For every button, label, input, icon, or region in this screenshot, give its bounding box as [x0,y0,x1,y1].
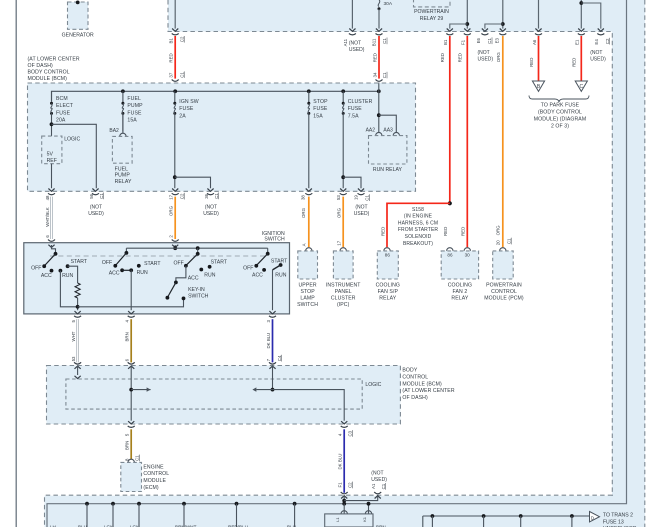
wire RED F1 down to cooling fan 2 relay pin 30 [466,36,468,247]
svg-text:FAN S/P: FAN S/P [378,289,399,295]
svg-text:POWERTRAIN: POWERTRAIN [486,283,522,289]
powertrain relay 29 box (cut off at top) [414,0,451,7]
svg-text:USED): USED) [349,47,365,53]
wire color label WHT/BLK [45,207,50,227]
svg-text:CLUSTER: CLUSTER [348,99,373,105]
label POWERTRAIN RELAY 29 [414,9,449,22]
svg-text:C3: C3 [348,430,353,436]
section 2 pivot and lever to OFF [113,251,128,268]
svg-text:CLUSTER: CLUSTER [331,295,356,301]
svg-text:C1: C1 [214,193,219,199]
svg-text:RED: RED [169,53,174,62]
svg-text:MODULE (BCM): MODULE (BCM) [28,76,68,82]
svg-text:OFF: OFF [174,260,184,266]
svg-text:37: 37 [169,72,174,77]
svg-text:MODULE: MODULE [143,478,166,484]
fuse FUEL PUMP FUSE 15A [121,91,124,131]
connector label C1 top right of B11 [382,38,387,45]
label BODY CONTROL MODULE (BCM) (AT LOWER CENTER OF DASH) [402,368,454,402]
ign sw fuse branch to pin 36 [173,175,211,188]
svg-text:IGN SW: IGN SW [179,99,198,105]
svg-text:S158: S158 [412,207,424,213]
wire from pin 37 to BCM bus [173,83,177,93]
svg-text:ENGINE: ENGINE [143,464,164,470]
wire RED to BCM pin 37 [174,36,176,79]
svg-text:56: 56 [89,193,94,198]
fuse BCM ELECT FUSE 20A [50,102,53,115]
svg-text:(BODY CONTROL: (BODY CONTROL [538,110,582,116]
label RUN [62,273,73,279]
pin label 4 under lower BCM [338,433,343,436]
svg-text:FUEL: FUEL [127,96,141,102]
svg-text:5V: 5V [47,151,54,157]
label (NOT USED) at A1 [371,470,387,483]
pin label 7 [266,358,271,361]
label FUEL PUMP FUSE 15A [127,96,143,124]
wire color label ORG [496,52,501,63]
connector label C2 [179,193,184,200]
off-page triangle D to trans 2 fuse 13 [590,512,600,522]
label RUN RELAY [373,167,403,173]
pin label 2 [169,235,174,238]
wire color label ORG on pcm wire [496,225,501,236]
connector label C4 [277,355,282,362]
pin label B1 [169,38,174,44]
svg-text:RELAY: RELAY [115,179,132,185]
svg-text:FUSE: FUSE [348,106,363,112]
pin label A [302,243,307,246]
connector label C1 at pin 34 [382,72,387,79]
module fill: top power-distribution band [168,0,645,32]
svg-text:(NOT: (NOT [355,205,367,211]
svg-text:E3: E3 [495,37,500,43]
pin label 5 [71,320,76,323]
fuel pump relay box [112,136,132,163]
svg-text:START: START [211,260,228,266]
wire color label RED on fan2 30 wire [460,227,465,236]
wire color label ORG [337,207,342,218]
section 3 pivot and lever to OFF [184,252,200,268]
svg-text:USED): USED) [590,56,606,62]
wire color label RED [572,58,577,67]
pin label E4 not used [594,39,599,45]
label RUN section 2 [137,270,148,276]
svg-text:86: 86 [447,253,453,258]
label START [71,259,88,265]
svg-text:38: 38 [300,195,305,200]
svg-text:RUN RELAY: RUN RELAY [373,167,403,173]
svg-text:(ECM): (ECM) [143,485,159,491]
BCM exit pin 36 not used [207,189,214,195]
bottom bus junction dots and drop wires [85,502,346,527]
svg-text:ACC: ACC [41,273,52,279]
connector entry pin 53 [74,362,81,369]
connector entry pin 6 [128,362,135,369]
connector label C1 [487,37,492,44]
svg-text:ORG: ORG [169,205,174,216]
svg-text:RED: RED [460,227,465,236]
key-in switch lever [166,282,186,300]
label OFF section 3 [174,260,184,266]
body control module box upper [28,83,416,191]
svg-text:OFF: OFF [102,260,112,266]
label UPPER STOP LAMP SWITCH [297,283,318,308]
cluster fuse branch to pin 19 [341,175,361,188]
BCM exit pin 56 not used [92,189,99,195]
wire color label RED [440,53,445,62]
label POWERTRAIN CONTROL MODULE (PCM) [484,283,524,302]
label START section 4 [271,258,288,264]
wire DK BLU lower BCM to bottom box pin F1 [343,429,345,493]
svg-text:C2: C2 [348,482,353,488]
svg-text:OF DASH): OF DASH) [28,63,54,69]
logic arrow left from DK BLU [252,387,272,391]
wire color label RED [529,58,534,67]
svg-text:FUSE 13: FUSE 13 [603,519,624,525]
connector label C2 [179,36,184,43]
label STOP FUSE 15A [313,99,328,119]
section 4 pivot and lever to OFF [254,252,269,268]
svg-text:INSTRUMENT: INSTRUMENT [326,283,361,289]
svg-text:RED: RED [372,53,377,62]
svg-text:C: C [579,84,583,90]
connector label C1 [214,193,219,200]
svg-text:RUN: RUN [137,270,148,276]
svg-text:COOLING: COOLING [448,283,472,289]
cooling fan 2 relay box with pins 86 30 [441,248,478,279]
BCM exit pin 38 [305,189,312,195]
svg-text:C1: C1 [135,455,140,461]
svg-text:FROM STARTER: FROM STARTER [398,227,438,233]
svg-text:48: 48 [45,195,50,200]
svg-text:ACC: ACC [252,273,263,279]
svg-text:START: START [271,258,288,264]
label (NOT USED) under 19 [354,205,370,218]
connector label C2 [605,38,610,45]
section 4 feed corner [267,248,269,254]
wire RED from B11 to BCM pin 34 [378,36,380,79]
wire color label RED [169,53,174,62]
svg-text:CONTROL: CONTROL [402,374,428,380]
wire ORG from BCM 38 to upper stop lamp switch pin A [308,197,310,248]
ignition switch exit pin 5 [74,311,81,317]
label (NOT USED) under E6 [478,50,494,63]
svg-text:AA3: AA3 [383,127,393,133]
svg-text:15A: 15A [313,113,323,119]
svg-text:(NOT: (NOT [590,50,602,56]
svg-text:C1: C1 [179,72,184,78]
resistor in ignition switch [75,283,80,298]
fuse IGN SW FUSE 2A [173,91,176,188]
wire grey stub at far right top (E4 branch into right column) [601,0,603,3]
section 3 ACC terminal [193,272,195,274]
pin label 3 [266,320,271,323]
module fill: bottom fuse-block strip [45,496,646,527]
svg-text:E4: E4 [594,39,599,45]
svg-text:KEY-IN: KEY-IN [188,287,205,293]
label TO PARK FUSE (BODY CONTROL MODULE) (DIAGRAM 2 OF 3) [534,103,586,130]
label FUEL PUMP RELAY [115,166,132,185]
label TO TRANS 2 FUSE 13 [603,513,637,527]
svg-text:RED: RED [529,58,534,67]
svg-text:UPPER: UPPER [298,283,316,289]
wire ORG feed in top band with tap to E6 [481,0,506,35]
svg-text:USED): USED) [203,211,219,217]
wire RED B1 down to splice S158 [449,36,451,203]
pin label 17 [337,240,342,245]
svg-text:ORG: ORG [496,52,501,63]
svg-text:TO PARK FUSE: TO PARK FUSE [541,103,580,109]
small connector box in bottom module [325,502,373,527]
section 1 pivot and lever to OFF [42,252,57,268]
svg-text:PUMP: PUMP [115,173,131,179]
off-page triangle B to park fuse [532,81,544,91]
label START section 2 [144,261,161,267]
svg-text:(IPC): (IPC) [337,302,350,308]
svg-text:2A: 2A [179,113,186,119]
pin label 19 [354,195,359,200]
svg-text:E1: E1 [575,39,580,45]
label OFF [31,266,41,272]
svg-text:20A: 20A [56,118,66,124]
module dashed outline: top band and right side [168,0,613,495]
svg-text:C2: C2 [179,36,184,42]
pin label 20 [496,240,501,245]
wire color labels at bottom edge (clipped) [50,524,386,527]
wire color label RED on fan2 86 wire [443,227,448,236]
wire color label DK BLU [338,454,343,470]
section 4 ACC terminal [262,268,266,272]
svg-text:C2: C2 [605,38,610,44]
svg-text:86: 86 [385,253,391,258]
svg-text:17: 17 [169,194,174,199]
connector entry pin 7 [269,362,276,369]
wire WHT/BLK from BCM 48 to ignition switch pin 6 [50,197,52,239]
pin label 6 [125,358,130,361]
label RUN section 4 [275,273,286,279]
label LOGIC [64,137,80,143]
ignition switch exit pin 4 [128,311,135,317]
logic wire DK BLU to exit pin 4 [273,390,345,421]
module fill: right column [612,32,645,527]
svg-text:(NOT: (NOT [371,470,383,476]
svg-text:(NOT: (NOT [90,205,102,211]
svg-text:BODY CONTROL: BODY CONTROL [28,69,70,75]
pin label F1 [338,482,343,488]
svg-text:ORG: ORG [496,225,501,236]
svg-text:LAMP: LAMP [300,295,315,301]
ignition switch box [24,243,290,314]
wire RED A6 down to park fuse triangle B [538,36,540,81]
wire A11 not used in top band [349,0,356,35]
svg-text:RELAY: RELAY [451,295,468,301]
label (AT LOWER CENTER OF DASH) BODY CONTROL MODULE (BCM) [28,56,80,82]
svg-text:C1: C1 [99,193,104,199]
svg-text:C1: C1 [382,72,387,78]
svg-text:19: 19 [354,195,359,200]
pin label A1 [371,483,376,489]
svg-text:BA2: BA2 [109,128,119,134]
bus junction dots [121,89,381,93]
svg-text:ORG: ORG [301,207,306,218]
svg-text:ELECT: ELECT [56,103,74,109]
run relay feed wire with AA2 AA3 split [377,83,396,132]
fuse CLUSTER FUSE 7.5A [342,91,345,188]
BRN exit arrow inside box [128,421,135,427]
wire resistor to exit junction [76,298,80,310]
label 5V REF [47,151,57,164]
section 4 START lever to RUN output [273,263,283,310]
svg-text:FUSE: FUSE [313,106,328,112]
label CLUSTER FUSE 7.5A [348,99,373,119]
pin label B1 under band [443,39,448,45]
svg-text:OF DASH): OF DASH) [402,395,428,401]
svg-text:30: 30 [465,253,471,258]
connector label C1 at A1 [381,483,386,490]
wire BRN lower BCM to ECM [130,429,132,459]
pin label 34 [372,72,377,77]
svg-text:20: 20 [496,240,501,245]
section 2 feed corner [125,248,127,253]
section 3 START terminal [208,265,212,269]
module dashed outline: far right edge [644,0,646,527]
label IGN SW FUSE 2A [179,99,198,119]
svg-text:34: 34 [372,72,377,77]
pin label 4 [125,320,130,323]
svg-text:RED: RED [380,227,385,236]
svg-text:PANEL: PANEL [335,289,352,295]
wire F1 feed in top band with tap to B1 [446,0,471,35]
section 2 START terminal [137,264,141,268]
pin label 53 [336,195,341,200]
wire WHT into logic box [75,366,81,379]
svg-text:53: 53 [71,356,76,361]
svg-text:C4: C4 [277,355,282,361]
pin label 37 [169,72,174,77]
pin label 17 [169,194,174,199]
pin label L1 in small box [335,517,340,522]
fuse 30A in top band [378,0,381,10]
svg-text:K1: K1 [362,516,367,522]
pin label F1 under band [461,39,466,45]
label IGNITION SWITCH [262,231,285,243]
svg-text:GENERATOR: GENERATOR [62,33,94,39]
connector label C1 at ECM [135,455,140,462]
section 2 ACC-RUN bridge and output [120,268,133,310]
svg-text:2 OF 3): 2 OF 3) [551,124,569,130]
wire BRN through logic box [129,366,133,421]
svg-text:RED: RED [572,58,577,67]
connector BA2 to fuel pump relay [122,113,124,133]
connector label C1 [365,194,370,201]
svg-text:ACC: ACC [188,275,199,281]
wire color label ORG [301,207,306,218]
svg-text:ORG: ORG [337,207,342,218]
svg-text:(AT LOWER CENTER: (AT LOWER CENTER [402,388,454,394]
label (NOT USED) under 36 [203,205,219,218]
connector label C1 [99,193,104,200]
powertrain control module box [493,248,514,279]
svg-text:BRN: BRN [125,441,130,450]
label ACC section 2 [109,271,120,277]
wire WHT ignition to lower BCM pin 53 [76,319,78,362]
logic box lower [66,379,362,409]
connector label C1 [179,71,184,78]
svg-text:C1: C1 [381,483,386,489]
svg-text:C1: C1 [365,195,370,201]
svg-text:STOP: STOP [300,289,315,295]
connector bumps AA2 AA3 [376,132,400,135]
pin label 5 under lower BCM [125,433,130,436]
svg-text:LOGIC: LOGIC [64,137,80,143]
svg-text:WHT/BLK: WHT/BLK [45,207,50,227]
svg-text:(NOT: (NOT [349,41,361,47]
svg-text:MODULE (BCM): MODULE (BCM) [402,381,442,387]
pin label E1 [575,39,580,45]
svg-text:SWITCH: SWITCH [297,302,318,308]
svg-text:RUN: RUN [204,273,215,279]
svg-text:(AT LOWER CENTER: (AT LOWER CENTER [28,56,80,62]
label INSTRUMENT PANEL CLUSTER (IPC) [326,283,361,308]
wire A6 feed in top band [535,0,542,35]
connector entry pin 2 [172,240,179,248]
svg-text:TO TRANS 2: TO TRANS 2 [603,513,633,519]
svg-text:USED): USED) [371,477,387,483]
label (NOT USED) under 56 [88,205,104,218]
label (NOT USED) under A11 [349,41,365,53]
wire color label RED on s/p relay branch [380,227,385,236]
section 1 START terminal wire to resistor [66,264,78,283]
svg-text:FUSE: FUSE [127,110,142,116]
svg-text:STOP: STOP [313,99,328,105]
svg-text:ACC: ACC [109,271,120,277]
svg-text:START: START [144,261,161,267]
generator box [68,1,89,30]
svg-text:RELAY: RELAY [379,295,396,301]
svg-text:OFF: OFF [31,266,41,272]
svg-text:17: 17 [337,240,342,245]
wire BCM elect fuse to logic box and branch to pin 56 [50,113,97,188]
BCM exit pin 19 not used [358,189,365,195]
instrument panel cluster box [333,248,353,279]
svg-text:SOLENOID: SOLENOID [405,234,432,240]
wire F1 to bottom bus with loop to A1 [342,496,377,504]
pin label 8 [125,458,130,461]
module dashed outline: bottom box top and left edge [45,495,613,527]
svg-text:RUN: RUN [275,273,286,279]
connector entry pin 6 [48,240,55,248]
label ENGINE CONTROL MODULE (ECM) [143,464,169,491]
pin label 48 [45,195,50,200]
pin label 53 [71,356,76,361]
wire from top band to BCM pin 37 (grey upper part) [172,0,179,35]
section 1 RUN terminal wire down [59,269,78,307]
pin label A6 [532,39,537,45]
svg-text:A: A [302,243,307,246]
BCM exit pin 17 [172,189,179,195]
svg-text:FUSE: FUSE [56,110,71,116]
svg-text:HARNESS, 6 CM: HARNESS, 6 CM [398,220,438,226]
svg-text:(NOT: (NOT [478,50,490,56]
wire 30A fuse down to band bottom [376,9,383,35]
svg-text:RELAY 29: RELAY 29 [420,16,444,22]
svg-text:(NOT: (NOT [205,205,217,211]
svg-text:FUEL: FUEL [115,166,129,172]
svg-text:7.5A: 7.5A [348,113,359,119]
svg-text:START: START [71,259,88,265]
svg-text:53: 53 [336,195,341,200]
pin label 6 [45,235,50,238]
